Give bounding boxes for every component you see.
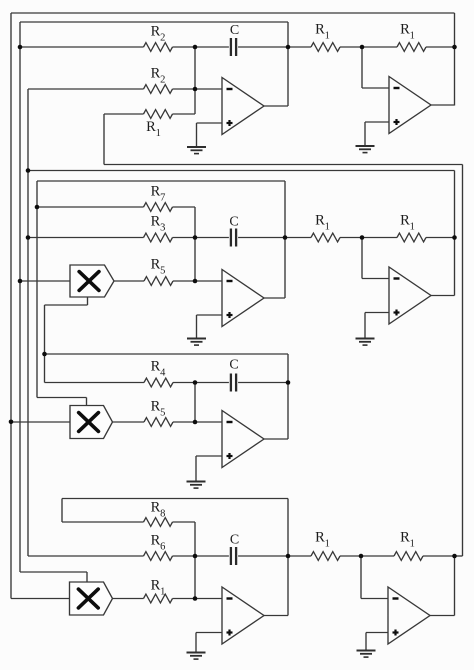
wire: R8 loop left riser x=62 bbox=[61, 499, 63, 523]
wire: M1 input run y=305 bbox=[45, 304, 88, 306]
wire: rail37 to M2 top feed bbox=[37, 397, 87, 399]
wire: R7 loop top y=181 bbox=[37, 180, 285, 182]
resistor R5 (row3) bbox=[144, 418, 173, 427]
svg-text:2: 2 bbox=[160, 32, 165, 43]
wire: M1 output to R5a bbox=[114, 280, 144, 282]
wire: rail11 to M2 input bbox=[11, 421, 70, 423]
junction (U4 feedback) bbox=[452, 235, 457, 240]
wire: left rail x=20 (U1 output) bbox=[19, 22, 21, 572]
wire: U2 feedback riser x=454.5 bbox=[454, 13, 456, 106]
ground (U3) bbox=[187, 338, 206, 340]
wire: long run y=170.5 (U4 output) bbox=[28, 170, 455, 172]
resistor R1 (row2 to U4) bbox=[311, 233, 340, 242]
resistor R6 bbox=[144, 552, 173, 561]
svg-text:2: 2 bbox=[160, 74, 165, 85]
wire: R1h to node4 bbox=[173, 598, 196, 600]
wire: U6 output bbox=[264, 615, 288, 617]
node: row3 summing junction rail bbox=[194, 383, 196, 423]
wire: U5 output run y=354 bbox=[45, 353, 289, 355]
junction (rail28, y=170.5 run) bbox=[26, 168, 31, 173]
wire: riser x=104 bbox=[103, 114, 105, 165]
op-amp U4 (inverter row2) bbox=[389, 267, 431, 324]
wire: U7 + to ground bbox=[365, 633, 367, 651]
wire: C4 to R1i bbox=[238, 555, 311, 557]
capacitor C4 bbox=[230, 547, 232, 565]
wire: U5 output bbox=[264, 438, 288, 440]
resistor R1 (row1 to U2) bbox=[311, 43, 340, 52]
capacitor C2 bbox=[230, 229, 232, 247]
resistor R1 (U7 feedback) bbox=[394, 552, 423, 561]
wire: U7 feedback riser bbox=[454, 556, 456, 616]
wire: U1 output bbox=[264, 105, 288, 107]
wire: riser x=44.5 (U5 output) bbox=[44, 305, 46, 383]
junction (rail11,M2) bbox=[9, 420, 14, 425]
multiplier M1 (row2) bbox=[70, 265, 114, 297]
svg-text:4: 4 bbox=[160, 367, 166, 378]
wire: R2a to summing node bbox=[173, 46, 196, 48]
wire: node4 to C4 bbox=[195, 555, 229, 557]
wire: U3 + input bbox=[197, 314, 223, 316]
wire: C1 feedback riser x=288 bbox=[287, 22, 289, 106]
svg-text:1: 1 bbox=[160, 586, 165, 597]
svg-text:1: 1 bbox=[325, 538, 330, 549]
wire: to U7 inverting input bbox=[361, 598, 388, 600]
resistor R4 (U5 feedback) bbox=[144, 378, 173, 387]
op-amp U5 (integrator row3) bbox=[222, 411, 264, 468]
wire: to U2 inverting input bbox=[362, 87, 389, 89]
wire: node to U1 inverting input bbox=[195, 88, 222, 90]
node: row2 summing junction rail bbox=[194, 207, 196, 281]
junction (rail28,R3) bbox=[26, 235, 31, 240]
resistor R1 (U2 feedback) bbox=[397, 43, 426, 52]
junction (rail37,R7) bbox=[35, 205, 40, 210]
junction (riser44.5, y=354) bbox=[42, 352, 47, 357]
junction (node3,C3) bbox=[193, 380, 198, 385]
wire: node3 to C3 bbox=[195, 382, 229, 384]
wire: R3 to node2 bbox=[173, 237, 196, 239]
resistor R7 (U3 feedback) bbox=[144, 203, 173, 212]
wire: right rail x=462.5 (U7 output) bbox=[462, 165, 464, 557]
wire: left rail x=28 (U4 output) bbox=[27, 89, 29, 556]
wire: C1 to R1d bbox=[238, 46, 311, 48]
wire: R5b to node3 bbox=[173, 421, 195, 423]
svg-text:1: 1 bbox=[410, 538, 415, 549]
wire: U3 output bbox=[264, 297, 285, 299]
svg-text:1: 1 bbox=[325, 30, 330, 41]
wire: node down to U7 - input bbox=[360, 556, 362, 599]
junction (node2,C2) bbox=[193, 235, 198, 240]
wire: to U4 inverting input bbox=[362, 278, 389, 280]
junction (rail20,M1) bbox=[18, 279, 23, 284]
wire: C3 feedback riser x=288 bbox=[287, 354, 289, 439]
wire: node4 to U6 - input bbox=[195, 598, 222, 600]
svg-text:1: 1 bbox=[156, 128, 161, 139]
capacitor C1 bbox=[230, 38, 232, 56]
junction (R1i/R1j node) bbox=[359, 554, 364, 559]
wire: rail11 to M3 input bbox=[11, 598, 70, 600]
svg-text:C: C bbox=[230, 23, 239, 38]
wire: C2/R7 feedback riser x=285 bbox=[284, 181, 286, 298]
wire: U7 output to feedback bbox=[430, 615, 455, 617]
junction (node1, - input) bbox=[193, 87, 198, 92]
wire: R1c to node bbox=[173, 113, 196, 115]
svg-text:C: C bbox=[229, 215, 238, 230]
wire: R8 to node4 bbox=[173, 521, 196, 523]
wire: node2 to C2 bbox=[195, 237, 229, 239]
wire: R4 to node3 bbox=[173, 382, 195, 384]
op-amp U7 (inverter row4) bbox=[388, 587, 430, 644]
wire: R1e to U2 output riser bbox=[426, 46, 455, 48]
junction (node1,C1) bbox=[193, 45, 198, 50]
svg-text:3: 3 bbox=[160, 222, 165, 233]
node: row4 summing junction rail bbox=[194, 522, 196, 599]
wire: M3 output to R1h bbox=[113, 598, 144, 600]
junction (R1f/R1g node) bbox=[360, 235, 365, 240]
svg-text:8: 8 bbox=[160, 508, 165, 519]
wire: node3 to U5 - input bbox=[195, 421, 222, 423]
wire: rail20 to M1 input bbox=[20, 280, 70, 282]
op-amp U3 (integrator row2) bbox=[222, 270, 264, 327]
ground (U4) bbox=[356, 338, 375, 340]
wire: U2 output to feedback bbox=[431, 104, 455, 106]
capacitor C3 bbox=[230, 374, 232, 392]
wire: right riser x=454.5 into row2 bbox=[454, 171, 456, 296]
wire: R8 loop top y=498.5 bbox=[62, 498, 288, 500]
wire: rail x=37 (U3 output) bbox=[36, 181, 38, 398]
junction (node4,- input) bbox=[193, 596, 198, 601]
junction (node4,C4) bbox=[193, 554, 198, 559]
multiplier M2 (row3) bbox=[70, 406, 113, 439]
op-amp U6 (integrator row4) bbox=[222, 587, 264, 644]
wire: C2 to R1f bbox=[238, 237, 311, 239]
ground (U5) bbox=[187, 481, 206, 483]
svg-text:6: 6 bbox=[160, 541, 165, 552]
svg-text:C: C bbox=[229, 358, 238, 373]
wire: riser to R4 bbox=[45, 382, 145, 384]
junction (rail20,R2a) bbox=[18, 45, 23, 50]
wire: R6 to node4 bbox=[173, 555, 196, 557]
wire: long run y=164.5 to right rail bbox=[104, 164, 463, 166]
junction (U2 feedback) bbox=[452, 45, 457, 50]
wire: R5a to node2 bbox=[173, 280, 195, 282]
wire: node down to U2 - input bbox=[361, 47, 363, 88]
junction (node3,- input) bbox=[193, 420, 198, 425]
wire: rail x=28 to R2b bbox=[28, 88, 144, 90]
ground (U2) bbox=[356, 145, 375, 147]
wire: rail37 to R7 bbox=[37, 206, 144, 208]
wire: U1 + to ground bbox=[196, 123, 198, 147]
op-amp U2 (inverter row1) bbox=[389, 77, 431, 134]
ground (U1) bbox=[187, 146, 206, 148]
wire: U3 + to ground bbox=[196, 315, 198, 339]
wire: rail28 to R3 bbox=[28, 237, 144, 239]
wire: U5 + to ground bbox=[195, 456, 197, 482]
wire: U7 + input bbox=[366, 632, 388, 634]
wire: node to C1 bbox=[195, 46, 229, 48]
junction (node2,- input) bbox=[193, 279, 198, 284]
ground (U7) bbox=[357, 650, 376, 652]
wire: left rail x=11 (U2 output) bbox=[10, 13, 12, 599]
wire: M1 second input drop bbox=[87, 297, 89, 305]
wire: node to right rail bbox=[455, 555, 463, 557]
junction (C2 feedback) bbox=[283, 235, 288, 240]
node: row1 summing junction rail bbox=[194, 47, 196, 114]
wire: U6 + input bbox=[196, 632, 222, 634]
junction (R1d/R1e node) bbox=[360, 45, 365, 50]
resistor R2 (row1 feedback) bbox=[144, 43, 173, 52]
resistor R8 (U6 feedback) bbox=[144, 518, 173, 527]
wire: M2 output to R5b bbox=[113, 421, 145, 423]
resistor R3 bbox=[144, 233, 173, 242]
resistor R2 (row1 input from U4) bbox=[144, 85, 173, 94]
junction (C1 feedback) bbox=[286, 45, 291, 50]
resistor R1 (row4 input) bbox=[144, 594, 173, 603]
wire: to R8 bbox=[62, 521, 144, 523]
resistor R5 (row2) bbox=[144, 277, 173, 286]
wire: R1g to U4 feedback riser bbox=[426, 237, 455, 239]
wire: U6 + to ground bbox=[195, 633, 197, 653]
resistor R1 (row1 input from U7) bbox=[144, 110, 173, 119]
wire: R1j to U7 feedback riser bbox=[423, 555, 455, 557]
junction (U7 feedback) bbox=[452, 554, 457, 559]
wire: U4 + input bbox=[365, 312, 389, 314]
junction (C4 feedback) bbox=[286, 554, 291, 559]
wire: node2 to U3 - input bbox=[195, 280, 222, 282]
junction (C3 feedback) bbox=[286, 380, 291, 385]
wire: U4 output to feedback bbox=[431, 295, 455, 297]
svg-text:1: 1 bbox=[325, 221, 330, 232]
wire: node down to U4 - input bbox=[361, 238, 363, 279]
op-amp U1 (integrator row1) bbox=[222, 78, 264, 135]
wire: from x=104 riser to R1c bbox=[104, 113, 144, 115]
wire: U2 output net, top run y=13 bbox=[11, 12, 455, 14]
svg-text:5: 5 bbox=[160, 265, 165, 276]
multiplier M3 (row4) bbox=[70, 582, 113, 615]
resistor R1 (U4 feedback) bbox=[397, 233, 426, 242]
wire: U1 output net, run y=22 bbox=[20, 21, 288, 23]
svg-text:5: 5 bbox=[160, 407, 165, 418]
wire: drop into M3 input bbox=[86, 572, 88, 582]
wire: R7 to node2 bbox=[173, 206, 196, 208]
wire: R2b to node bbox=[173, 88, 196, 90]
wire: U1 + input bbox=[197, 122, 223, 124]
svg-text:C: C bbox=[230, 533, 239, 548]
svg-text:1: 1 bbox=[410, 221, 415, 232]
wire: C3 to feedback riser bbox=[238, 382, 288, 384]
ground (U6) bbox=[187, 652, 206, 654]
wire: rail20 to M3 top feed bbox=[20, 571, 87, 573]
wire: U4 + to ground bbox=[364, 313, 366, 339]
wire: rail28 to R6 bbox=[28, 555, 144, 557]
wire: U5 + input bbox=[196, 455, 222, 457]
wire: U2 + input bbox=[365, 121, 389, 123]
wire: drop into M2 input bbox=[86, 398, 88, 406]
svg-text:7: 7 bbox=[160, 192, 165, 203]
resistor R1 (row4 to U7) bbox=[311, 552, 340, 561]
wire: U2 + to ground bbox=[364, 122, 366, 146]
wire: R1d to R1e bbox=[340, 46, 397, 48]
wire: R1f to R1g bbox=[340, 237, 397, 239]
svg-text:1: 1 bbox=[410, 30, 415, 41]
wire: R1i to R1j bbox=[340, 555, 394, 557]
wire: C4/R8 feedback riser x=288 bbox=[287, 499, 289, 616]
wire: rail x=20 to R2a bbox=[20, 46, 144, 48]
